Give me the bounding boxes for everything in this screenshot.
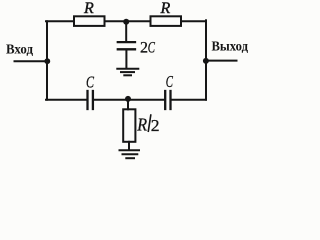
svg-text:Вход: Вход	[6, 42, 33, 57]
svg-text:C: C	[166, 72, 174, 91]
svg-text:R: R	[83, 0, 94, 17]
svg-text:2: 2	[151, 116, 160, 135]
svg-text:C: C	[86, 73, 95, 92]
svg-text:R: R	[136, 115, 147, 135]
svg-text:R: R	[160, 0, 171, 17]
svg-text:2: 2	[140, 39, 148, 56]
svg-text:C: C	[148, 39, 155, 56]
svg-text:Выход: Выход	[212, 39, 249, 54]
